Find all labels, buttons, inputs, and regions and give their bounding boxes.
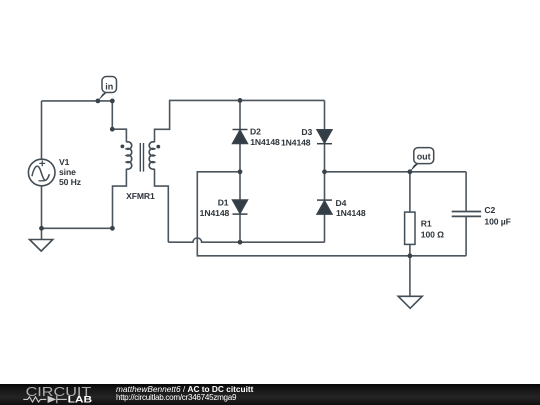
svg-text:D1: D1 — [218, 198, 229, 208]
svg-text:C2: C2 — [484, 205, 495, 215]
svg-text:1N4148: 1N4148 — [250, 137, 280, 147]
svg-text:D4: D4 — [336, 198, 347, 208]
svg-text:1N4148: 1N4148 — [200, 208, 230, 218]
svg-text:D3: D3 — [301, 127, 312, 137]
svg-text:1N4148: 1N4148 — [281, 137, 311, 147]
svg-text:D2: D2 — [250, 127, 261, 137]
svg-text:out: out — [417, 151, 431, 161]
svg-text:R1: R1 — [421, 218, 432, 228]
svg-text:XFMR1: XFMR1 — [126, 191, 155, 201]
svg-text:V1: V1 — [59, 157, 70, 167]
svg-text:100 µF: 100 µF — [484, 216, 510, 226]
svg-text:1N4148: 1N4148 — [336, 208, 366, 218]
svg-text:in: in — [105, 81, 113, 91]
svg-text:100 Ω: 100 Ω — [421, 230, 444, 240]
svg-text:50 Hz: 50 Hz — [59, 177, 81, 187]
svg-text:LAB: LAB — [68, 395, 93, 405]
svg-text:sine: sine — [59, 167, 76, 177]
